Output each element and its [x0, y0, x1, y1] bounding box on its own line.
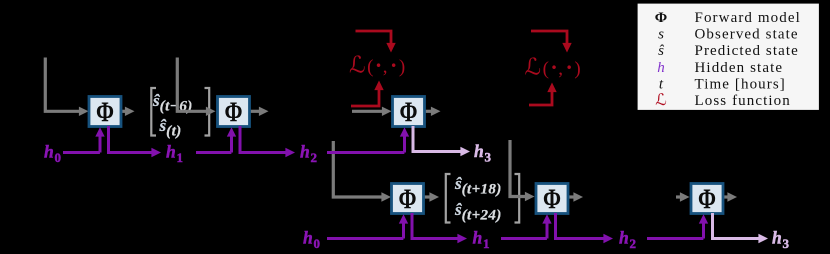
wire U2 hidden state out to h2	[240, 126, 295, 157]
wire loss L2 target input	[531, 31, 572, 53]
wire U4 hidden state out to h1	[412, 213, 467, 243]
svg-text:Loss function: Loss function	[695, 93, 791, 109]
svg-text:h: h	[657, 60, 665, 76]
wire U1 output	[121, 107, 135, 116]
wire h0 to U1	[63, 127, 105, 152]
wire observation input to U2	[177, 58, 215, 117]
bracket B2 right delimiter	[515, 174, 520, 223]
wire observation input to U4	[333, 141, 391, 202]
svg-text:ℒ: ℒ	[655, 92, 667, 109]
forward model U5	[536, 184, 568, 216]
wire observation input to U1	[45, 58, 88, 117]
svg-text:ℒ(·,·): ℒ(·,·)	[349, 53, 405, 78]
svg-text:s: s	[658, 26, 664, 42]
bracket B1 left delimiter	[151, 88, 156, 136]
svg-text:ℒ(·,·): ℒ(·,·)	[525, 55, 581, 80]
svg-text:Hidden state: Hidden state	[695, 60, 784, 76]
svg-text:Φ: Φ	[225, 97, 243, 129]
forward model U1	[89, 97, 121, 129]
forward model U6	[691, 184, 723, 216]
wire U3 output	[425, 107, 441, 116]
svg-text:Forward model: Forward model	[695, 10, 801, 26]
wire U4 output	[424, 192, 440, 201]
wire prediction input to U3	[352, 107, 392, 116]
wire U2 output	[250, 107, 269, 116]
svg-text:Observed state: Observed state	[695, 26, 799, 42]
wire loss L1 prediction input	[351, 81, 384, 107]
wire loss L2 prediction input	[529, 83, 557, 106]
wire loss L1 target input	[356, 31, 396, 53]
wire h0 to U4	[327, 214, 408, 238]
wire input to U6	[676, 192, 690, 201]
legend box	[637, 3, 820, 111]
wire h1 to U5	[501, 214, 552, 238]
wire U3 hidden state out to h3	[413, 126, 470, 156]
wire U6 hidden state out to h3	[713, 213, 769, 243]
svg-text:Φ: Φ	[698, 184, 716, 216]
forward model U4	[392, 184, 424, 216]
forward model U2	[218, 97, 250, 129]
svg-text:Predicted state: Predicted state	[695, 43, 799, 59]
wire U6 output	[723, 192, 737, 201]
svg-text:Φ: Φ	[96, 97, 114, 129]
svg-text:Φ: Φ	[399, 184, 417, 216]
forward model U3	[393, 97, 425, 129]
wire h2 to U6	[647, 214, 708, 238]
wire U5 output	[568, 192, 583, 201]
wire h2 to U3	[327, 127, 409, 152]
bracket B2 left delimiter	[446, 174, 451, 223]
wire h1 to U2	[196, 127, 236, 152]
svg-text:Φ: Φ	[655, 10, 667, 26]
svg-text:Φ: Φ	[400, 97, 418, 129]
svg-text:Φ: Φ	[543, 184, 561, 216]
wire prediction input to U5	[510, 140, 535, 201]
wire U1 hidden state out to h1	[109, 126, 162, 157]
wire U5 hidden state out to h2	[556, 213, 614, 243]
svg-text:Time [hours]: Time [hours]	[695, 76, 786, 92]
bracket B1 right delimiter	[205, 88, 210, 136]
svg-text:ŝ: ŝ	[658, 43, 664, 59]
